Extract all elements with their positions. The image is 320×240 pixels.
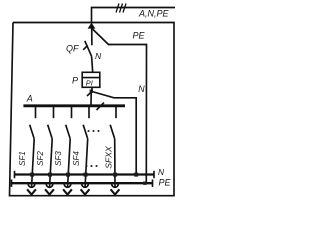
svg-text:N: N	[95, 51, 102, 61]
svg-text:N: N	[158, 167, 165, 177]
svg-text:SFXX: SFXX	[104, 146, 114, 169]
svg-text:SF1: SF1	[18, 151, 27, 166]
svg-text:PI: PI	[86, 79, 93, 88]
svg-text:SF2: SF2	[36, 151, 45, 166]
svg-text:SF4: SF4	[72, 151, 81, 166]
svg-text:P: P	[72, 76, 78, 86]
svg-text:PE: PE	[159, 177, 172, 187]
svg-text:QF: QF	[66, 44, 79, 54]
svg-text:PE: PE	[133, 31, 146, 41]
svg-text:SF3: SF3	[54, 151, 63, 166]
svg-text:N: N	[138, 84, 145, 94]
svg-text:A,N,PE: A,N,PE	[138, 8, 170, 18]
svg-text:A: A	[26, 93, 33, 103]
